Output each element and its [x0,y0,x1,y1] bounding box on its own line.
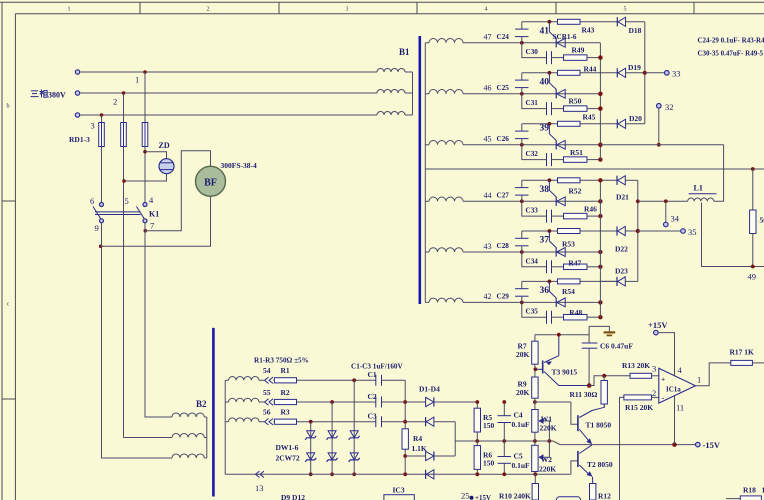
wire feeder right to B2 coil1 [145,223,172,417]
svg-text:54: 54 [263,366,271,375]
svg-text:W2: W2 [541,455,553,464]
svg-text:C32: C32 [526,150,539,158]
capacitor C2 [376,397,382,408]
junction bus tap45 [598,143,602,147]
svg-text:C6 0.47uF: C6 0.47uF [600,342,633,351]
wire zener column 1 [310,422,312,475]
diode D23 [600,277,637,286]
svg-text:C26: C26 [497,135,510,143]
svg-text:44: 44 [484,191,492,200]
svg-text:34: 34 [671,214,680,224]
junction C4 C5 [502,439,506,443]
svg-text:C25: C25 [497,84,510,92]
thyristor SCR cell 37 [549,231,565,257]
svg-text:C30: C30 [526,48,539,56]
wire gate bus group2 [599,180,601,317]
wiper W2 [538,441,549,460]
svg-text:C28: C28 [497,242,510,250]
wire to ZD [145,152,167,159]
thyristor SCR cell 38 [549,180,565,206]
diode D21 [617,176,638,185]
resistor R15 [624,395,659,400]
svg-text:40: 40 [540,77,550,87]
transformer B1 primary winding 2 [377,90,413,93]
junction zener column 2 on row 55 [330,400,334,404]
wire feeder left to B2 coil3 [102,223,173,458]
junction rail 41 gate stub [548,20,552,24]
svg-text:220K: 220K [540,424,557,433]
junction bus row R50 [598,106,602,110]
terminal 35 [681,229,686,234]
resistor R4 [402,429,408,449]
resistor R7 [532,335,538,377]
junction capacitor C26 bottom [520,143,524,147]
resistor R49 [552,55,601,61]
resistor R46 [552,213,601,219]
wire row 55 [259,401,264,403]
svg-text:C34: C34 [526,257,539,265]
junction bus row R46 [598,214,602,218]
wire tap row 47 [463,42,600,44]
junction zener column 1 on row 56 [309,420,313,424]
capacitor C1 [376,375,382,386]
svg-text:5: 5 [125,196,129,206]
svg-text:R15 20K: R15 20K [625,403,653,412]
svg-text:R1-R3 750Ω ±5%: R1-R3 750Ω ±5% [254,357,309,365]
svg-text:C24: C24 [497,33,510,41]
svg-text:1.1K: 1.1K [412,444,427,453]
svg-text:C2: C2 [368,392,377,401]
transformer B1 secondary winding 46 [425,90,463,94]
svg-text:9: 9 [95,223,99,233]
junction D19 output [643,71,647,75]
svg-text:55: 55 [263,388,271,397]
wire C32 left leg [522,145,547,160]
wire tap row 44 [463,200,600,202]
svg-text:R17 1K: R17 1K [730,348,755,357]
wire tap row 46 [463,93,600,95]
svg-text:3: 3 [346,7,349,13]
zener diode upper column 2 [327,431,338,440]
svg-text:0.1uF: 0.1uF [512,461,531,470]
svg-text:L1: L1 [694,184,703,193]
junction bottom zener column 2 [330,472,334,476]
wire tap row 43 [463,251,600,253]
resistor R50 [552,106,601,112]
svg-text:+15V: +15V [475,494,491,500]
junction ZD return [122,179,126,183]
svg-text:R46: R46 [584,204,597,213]
svg-text:R45: R45 [583,112,596,121]
wire common rail 169 [425,168,764,170]
wire middle phase column [123,147,125,438]
junction bottom zener column 1 [309,472,313,476]
wire rail 41 [522,21,618,23]
junction wipers [548,439,552,443]
thyristor SCR cell 41 [549,22,565,48]
svg-text:56: 56 [263,408,271,417]
wire terminal 32 down [658,108,660,145]
wire C6 node to R13 row [589,376,630,386]
fuse RD2 [121,123,127,147]
thyristor SCR cell 40 [549,73,565,99]
junction capacitor C24 bottom [520,41,524,45]
svg-text:R4: R4 [413,434,422,443]
junction bus row R49 [598,55,602,59]
svg-text:380V: 380V [48,91,66,100]
zener diode lower column 2 [327,453,338,462]
svg-text:42: 42 [484,292,492,301]
svg-text:150: 150 [483,459,495,468]
svg-text:R50: R50 [569,96,582,105]
resistor R2 [274,399,297,404]
terminal -15V [696,442,701,447]
svg-text:RD1-3: RD1-3 [69,135,90,144]
junction bus R49 [598,55,602,59]
capacitor C6 [582,343,598,386]
svg-text:R47: R47 [568,258,581,267]
junction bus row R48 [598,315,602,319]
wire ZD return [124,174,167,181]
wire B2 secondary bus [224,380,226,474]
transformer B2 secondary winding 54 [225,376,259,380]
svg-text:20K: 20K [516,388,530,397]
diode D18 [617,17,645,26]
label 三相380V [31,90,67,100]
svg-text:1: 1 [697,375,701,385]
svg-text:R49: R49 [572,45,585,54]
wire D21-D23 link [637,180,639,281]
junction bus tap 45 [598,143,602,147]
diode D20 [617,119,645,128]
svg-text:47: 47 [484,33,492,42]
capacitor C25 [515,73,529,94]
thyristor SCR cell 36 [549,281,565,307]
junction 32 on row 45 [657,143,661,147]
capacitor C29 [515,281,529,302]
wire C35 left leg [522,302,547,317]
svg-text:R2: R2 [281,388,290,397]
resistor R52 [558,178,581,183]
svg-text:C27: C27 [497,191,510,199]
transformer B1 secondary winding 44 [425,197,463,201]
svg-text:150: 150 [483,421,495,430]
svg-text:+: + [661,375,665,384]
junction bus row R47 [598,265,602,269]
svg-text:D19: D19 [628,63,641,72]
junction node 3 [100,113,104,117]
svg-text:41: 41 [540,26,550,36]
svg-text:0.1uF: 0.1uF [512,420,531,429]
wire row 54 [259,379,264,381]
junction capacitor C25 bottom [520,92,524,96]
resistor R17 [731,360,764,365]
transformer B2 core [212,328,215,497]
junction C2 column [403,400,407,404]
capacitor C3 [376,416,382,427]
wire zener column 2 [331,402,333,474]
junction R4 bottom [403,454,407,458]
svg-text:IC3: IC3 [393,486,405,495]
wire feeder middle to B2 coil2 [124,437,173,439]
svg-text:C1: C1 [368,370,377,379]
wire C1 right [382,379,406,381]
coupling mark row 13 [256,471,260,477]
svg-text:25: 25 [461,491,470,500]
wire gate bus group1 [599,43,601,160]
svg-text:2: 2 [113,97,117,107]
zener diode upper column 1 [305,431,316,440]
junction rail 40 gate stub [548,71,552,75]
wire rail 37 [522,230,617,232]
junction C5 bottom [502,472,506,476]
wire zener column 3 [353,380,355,474]
wire R9 bottom to row55 [535,401,571,403]
op-amp IC1a [659,368,696,403]
wire C2 right [382,401,406,403]
diode D4 [426,470,434,479]
wire -15V row [455,441,695,445]
wire BF bottom return [101,196,211,246]
junction bus R50 [598,106,602,110]
diode D1 [405,397,477,406]
terminal 34 [664,222,669,227]
junction bus row R51 [598,157,602,161]
resistor R53 [558,229,581,234]
svg-text:-: - [662,393,665,403]
junction T3 emitter rail [557,333,561,337]
svg-text:K1: K1 [149,210,159,219]
svg-text:R48: R48 [569,308,582,317]
fuse RD3 [142,123,148,147]
transistor T2 [578,445,593,484]
junction 34 tap [664,199,668,203]
junction bus tap 42 [598,300,602,304]
wire top rail amplifier [535,334,589,336]
svg-text:D9 D12: D9 D12 [281,493,305,500]
junction bus tap46 [598,92,602,96]
terminal phase B [75,91,79,95]
junction L1 row [636,199,640,203]
wire to terminal 34 [665,201,667,222]
resistor R47 [552,264,601,270]
junction W1 W2 [533,439,537,443]
box bottom middle [556,497,580,500]
capacitor C32 [547,153,552,166]
svg-text:32: 32 [665,102,674,112]
wire rail 38 [522,179,617,181]
svg-text:56: 56 [760,216,764,225]
transformer B1 core [418,36,421,304]
wire R15 feedback column [620,397,624,500]
svg-text:R43: R43 [582,25,595,34]
svg-text:c: c [7,302,10,308]
svg-text:C31: C31 [526,99,539,107]
capacitor C26 [515,124,529,145]
svg-text:2: 2 [652,388,656,398]
diode D22 [600,226,637,235]
junction bottom zener column 3 [352,472,356,476]
capacitor C34 [547,260,552,273]
resistor R3 [274,419,297,424]
junction bus tap 43 [598,250,602,254]
svg-text:D22: D22 [615,245,628,254]
svg-text:b: b [7,104,10,110]
svg-text:11: 11 [676,403,684,413]
wire contact7 to BF top [145,151,210,231]
transformer B1 secondary winding 43 [425,248,463,252]
junction column bottom [403,472,407,476]
wire node3 down [101,115,103,123]
transformer B1 secondary winding 47 [425,39,463,43]
wire row 55 to capacitor [297,401,376,403]
coupling mark row 54 [265,377,269,383]
resistor R5 [474,402,480,441]
wire C31 left leg [522,94,547,109]
svg-text:T3 9015: T3 9015 [552,368,578,377]
junction C6 bottom node [587,383,592,388]
transformer B2 primary winding 2 [172,433,207,437]
svg-text:13: 13 [255,483,264,493]
svg-text:IC1a: IC1a [666,386,681,394]
transformer B1 secondary winding 42 [425,298,463,302]
svg-text:DW1-6: DW1-6 [276,443,299,452]
svg-text:D20: D20 [629,114,642,123]
junction rail 37 gate stub [548,229,552,233]
resistor R44 [558,70,581,75]
svg-text:4: 4 [485,7,488,13]
svg-text:R12: R12 [598,492,611,500]
wire node2 down [123,93,125,123]
junction capacitor C28 bottom [520,250,524,254]
svg-text:C3: C3 [368,412,377,421]
wire to terminal 33 [645,72,665,74]
svg-text:R10 240K: R10 240K [499,492,531,500]
svg-text:20K: 20K [516,350,530,359]
svg-text:D23: D23 [615,267,628,276]
wire row 54 to capacitor [297,379,376,381]
junction node 2 [122,91,126,95]
transformer B1 primary winding 3 [377,112,413,116]
resistor R1 [274,378,297,383]
svg-text:33: 33 [672,69,681,79]
wire row 49 [702,203,764,267]
resistor R11 [601,376,607,408]
svg-text:45: 45 [484,135,492,144]
wire C33 left leg [522,201,547,216]
junction BF return [99,245,103,249]
svg-text:T1 8050: T1 8050 [586,421,612,430]
svg-text:36: 36 [540,286,550,296]
capacitor C30 [547,51,552,64]
svg-text:220K: 220K [539,465,556,474]
coupling mark row 55 [265,399,269,405]
junction T3 base node [534,367,538,371]
wire D18-D20 link [644,22,646,124]
junction bus tap 46 [598,92,602,96]
junction rail 36 gate stub [548,280,552,284]
junction ZD tap [143,150,147,154]
junction below contact 7 [144,229,148,233]
svg-text:5: 5 [624,7,627,13]
svg-text:R51: R51 [570,148,583,157]
resistor R43 [558,19,581,24]
wire rail to C6 [588,326,590,343]
svg-text:D21: D21 [616,193,629,202]
svg-text:46: 46 [484,84,492,93]
svg-text:2CW72: 2CW72 [276,453,300,462]
diode D2 [405,417,455,426]
svg-text:R1: R1 [281,366,290,375]
motor BF [196,166,226,196]
wire phase line 2 [80,92,377,94]
ground symbol [589,326,615,335]
resistor R51 [552,157,601,163]
wire C30 left leg [522,43,547,58]
svg-text:R54: R54 [562,287,575,296]
junction W2 bottom row [533,472,537,476]
svg-text:W1: W1 [541,415,553,424]
terminal +15V bottom [470,496,474,500]
svg-text:C5: C5 [514,452,523,461]
transformer B1 primary winding 1 [377,69,413,72]
capacitor C35 [547,311,552,324]
wire phase line 1 [80,71,377,73]
svg-text:3: 3 [652,363,656,373]
svg-text:C24-29 0.1uF- R43-R4: C24-29 0.1uF- R43-R4 [698,37,764,45]
overload device ZD [159,159,174,174]
svg-text:+15V: +15V [648,320,668,330]
junction C4 top [502,400,506,404]
svg-text:6: 6 [90,196,94,206]
svg-text:B2: B2 [196,399,207,409]
capacitor C33 [547,210,552,223]
transformer B1 secondary winding 45 [425,141,463,145]
zener diode lower column 1 [305,453,316,462]
junction row 49 [751,265,755,269]
svg-text:C1-C3 1uF/160V: C1-C3 1uF/160V [351,363,404,371]
svg-text:C29: C29 [497,292,510,300]
svg-text:D18: D18 [629,26,642,35]
capacitor C31 [547,102,552,115]
resistor R10 [532,474,538,500]
resistor 56 right edge [750,169,756,267]
transformer B2 secondary winding 55 [225,398,259,402]
thyristor SCR cell 39 [549,124,565,150]
zener diode lower column 3 [349,453,360,462]
wire tap row 45 [463,144,600,146]
junction R6 bottom [475,472,479,476]
svg-text:300FS-38-4: 300FS-38-4 [221,161,257,170]
wire C34 left leg [522,252,547,267]
capacitor C28 [515,231,529,252]
resistor R13 [630,373,659,378]
terminal 33 [665,71,670,76]
wire row 56 [259,421,264,423]
wire phase line 3 [80,114,377,116]
wire to terminal 35 [638,230,681,232]
terminal phase A [75,70,79,74]
wire pin11 to -15V [674,396,676,445]
svg-text:38: 38 [540,185,550,195]
svg-text:49: 49 [748,272,757,282]
resistor R12 [590,484,596,500]
svg-text:R11 30Ω: R11 30Ω [570,390,598,399]
contactor K1 pole 4-7 [137,203,148,223]
svg-text:43: 43 [484,242,492,251]
wire C right column [404,380,406,429]
junction capacitor C27 bottom [520,199,524,203]
